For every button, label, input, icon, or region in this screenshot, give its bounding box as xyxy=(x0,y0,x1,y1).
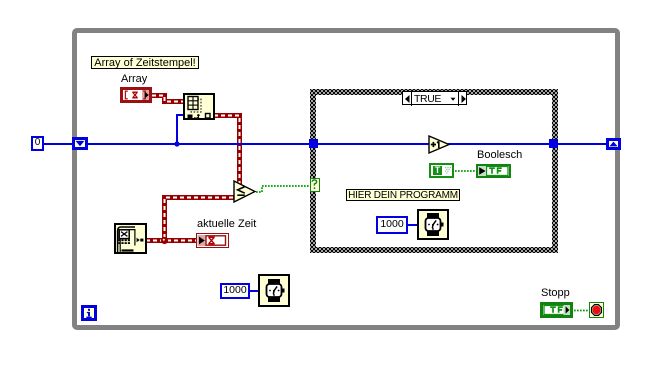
numeric constant 0 xyxy=(31,136,44,151)
Get Date/Time In Seconds node xyxy=(114,223,147,254)
case selector terminal ? xyxy=(310,178,320,192)
Stopp boolean control xyxy=(540,302,573,318)
comparator less-or-equal node xyxy=(234,181,255,202)
label: aktuelle Zeit xyxy=(197,219,256,230)
wire: current time from Get Date/Time to aktuelle Zeit indicator xyxy=(146,238,197,243)
wire: green boolean from T constant to Boolesch indicator xyxy=(455,170,477,172)
case structure border (checkered) xyxy=(310,89,558,253)
wire: blue wire inside case (+1 to right tunnel) xyxy=(448,143,550,145)
increment +1 node xyxy=(429,136,449,153)
wire: current time branch up to comparator lower input xyxy=(165,198,236,239)
wire: blue branch up to Index Array index input xyxy=(177,115,184,144)
label: Stopp xyxy=(541,288,570,299)
while loop border xyxy=(72,28,620,330)
iteration terminal i xyxy=(81,305,97,321)
shift register right (up arrow) xyxy=(606,138,621,150)
wire: timestamp from Index Array output down to comparator top input xyxy=(214,116,240,185)
tunnel: case left tunnel xyxy=(309,139,318,148)
wire: blue wire 1000 to Wait ms (lower) xyxy=(250,290,259,292)
Boolesch indicator xyxy=(476,164,511,178)
wire: blue wire from case right tunnel to right shift register xyxy=(558,143,606,145)
label: HIER DEIN PROGRAMM xyxy=(346,189,460,201)
boolean True constant xyxy=(429,163,454,178)
numeric constant 1000 (lower) xyxy=(220,283,250,299)
wire: main blue i32 wire from 0 constant to left shift register xyxy=(44,143,72,145)
numeric constant 1000 (inside case) xyxy=(376,216,408,234)
label: Array xyxy=(121,74,147,85)
label: Boolesch xyxy=(477,150,522,161)
case selector label TRUE xyxy=(402,91,467,105)
junction: red wire junction dot xyxy=(161,237,168,244)
junction: blue wire junction dot xyxy=(174,141,179,146)
wire: main blue wire from left shift register to case left tunnel xyxy=(88,143,310,145)
wire: green boolean from Stopp control to loop condition terminal xyxy=(574,310,589,312)
tunnel: case right tunnel xyxy=(549,139,558,148)
shift register left (down arrow) xyxy=(72,137,88,150)
loop condition terminal (stop sign) xyxy=(589,302,604,318)
wire: timestamp array from Array control to Index Array xyxy=(152,96,184,102)
Array control (array of timestamp) xyxy=(120,87,152,103)
Index Array node xyxy=(183,93,215,120)
wire: blue wire 1000 to Wait ms (inside case) xyxy=(408,224,418,226)
Wait ms node (inside case) xyxy=(417,209,449,240)
wire: blue wire inside case (left tunnel to +1) xyxy=(318,143,430,145)
wire: green boolean from comparator to case selector terminal xyxy=(256,186,311,192)
Wait ms node (lower) xyxy=(258,274,290,307)
aktuelle Zeit indicator (timestamp) xyxy=(196,233,229,248)
label: Array of Zeitstempel! xyxy=(91,56,199,69)
